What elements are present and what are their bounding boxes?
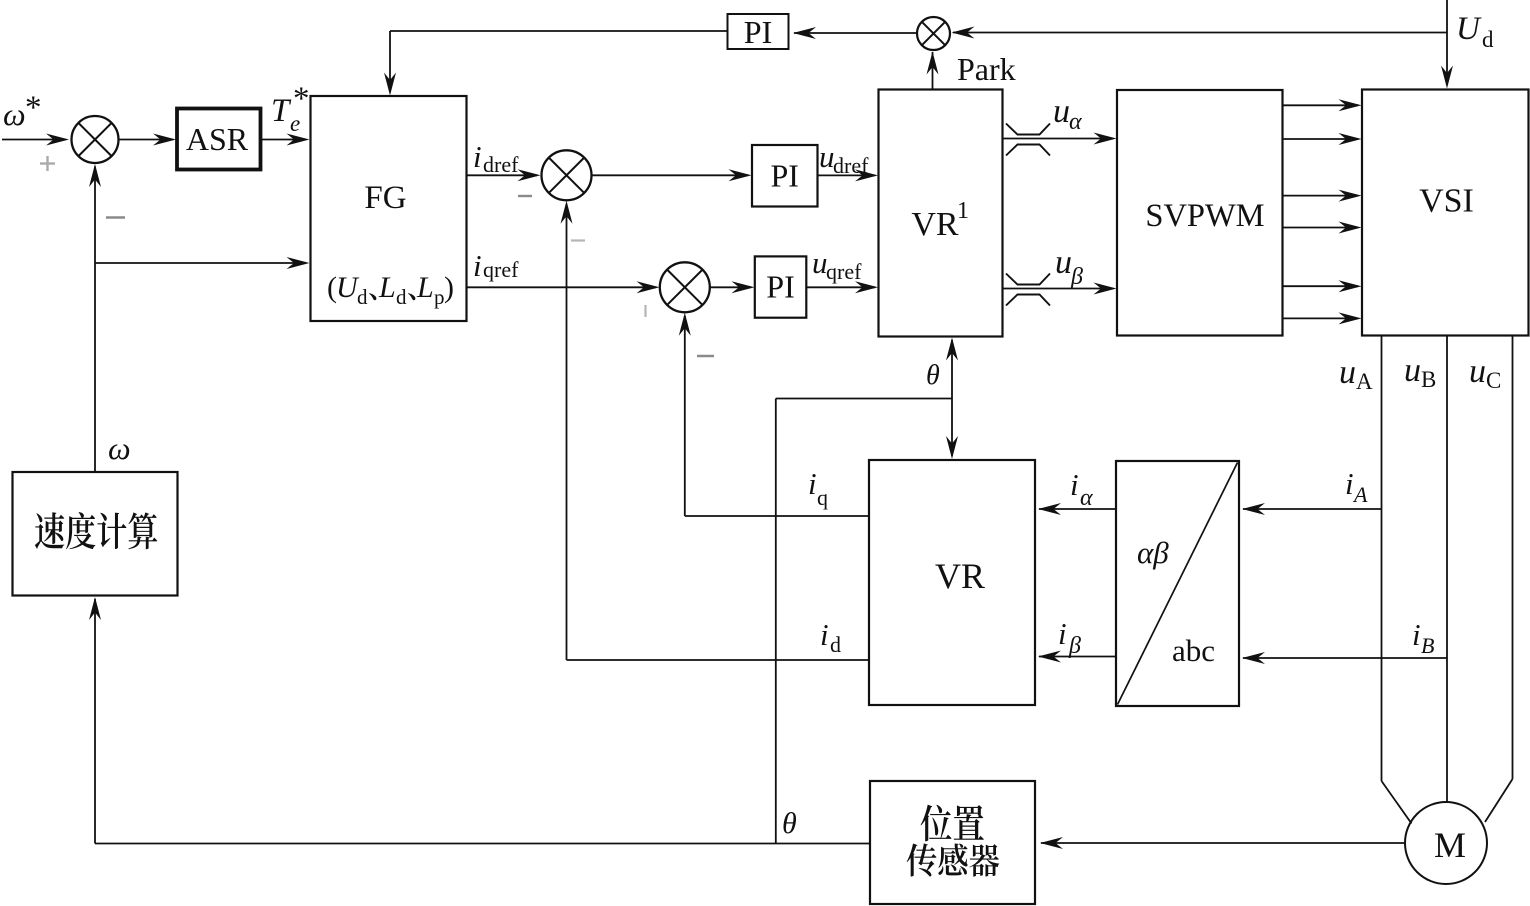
- svg-text:A: A: [1356, 369, 1373, 394]
- wire: S2 to PI1: [592, 174, 749, 176]
- wire: VR1 top to Park junction: [932, 52, 934, 90]
- svg-text:β: β: [1068, 633, 1081, 659]
- svg-text:i: i: [473, 139, 482, 174]
- svg-text:PI: PI: [766, 269, 794, 305]
- wire: motor to position sensor: [1041, 842, 1405, 844]
- block ASR: [177, 109, 261, 170]
- wire: uA phase line VSI to motor: [1381, 336, 1383, 782]
- label plus at S3: [644, 305, 646, 317]
- block VSI: [1362, 90, 1529, 336]
- svg-text:d: d: [830, 632, 841, 657]
- wire: S3 to PI2: [710, 286, 751, 288]
- block VR: [869, 460, 1035, 705]
- wire: theta branch to bottom feedback: [776, 398, 952, 400]
- wire: iA tap from uA line to abc block: [1243, 508, 1382, 510]
- svg-text:i: i: [1058, 616, 1067, 651]
- wire: theta between VR1 and VR (double arrow): [951, 340, 953, 456]
- svg-text:i: i: [1345, 466, 1354, 501]
- wire: speed calc omega output to S1: [94, 167, 96, 473]
- svg-text:ω: ω: [108, 430, 131, 466]
- svg-text:u: u: [1404, 352, 1421, 389]
- svg-text:α: α: [1080, 485, 1093, 511]
- svg-text:u: u: [1339, 354, 1356, 391]
- wire: omega* input to summing junction S1: [2, 139, 66, 141]
- wire: Ud line to Park junction: [953, 32, 1447, 34]
- svg-text:B: B: [1421, 633, 1434, 658]
- svg-text:i: i: [1412, 617, 1421, 652]
- svg-text:M: M: [1434, 825, 1466, 865]
- wire: PI2 to VR1: [806, 286, 875, 288]
- wire: VR1 u_beta to SVPWM with limiter: [1003, 288, 1114, 290]
- label minus2 at S2: [571, 239, 585, 241]
- svg-text:VR: VR: [911, 206, 959, 243]
- svg-text:ω: ω: [3, 96, 26, 132]
- wire: position sensor theta output to speed calc: [95, 843, 870, 845]
- svg-text:p: p: [434, 285, 445, 309]
- svg-text:qref: qref: [826, 259, 862, 284]
- wire: Ud vertical into VSI: [1446, 0, 1448, 85]
- label minus at S2: [518, 195, 532, 197]
- wire: iq from VR to S3: [685, 515, 869, 517]
- svg-text:β: β: [1070, 264, 1083, 290]
- svg-text:L: L: [416, 271, 434, 304]
- label minus at S1: [106, 216, 125, 219]
- label position-sensor line2: [907, 843, 1000, 876]
- wire: iB tap from uB line to abc block: [1243, 657, 1447, 659]
- block speed calculation: [13, 472, 178, 596]
- block VR1: [879, 90, 1003, 337]
- label + at S1: [40, 162, 55, 164]
- wire: S1 to ASR: [119, 139, 174, 141]
- wire: top PI output to FG top input: [390, 30, 728, 32]
- svg-text:SVPWM: SVPWM: [1145, 198, 1264, 234]
- svg-text:VSI: VSI: [1419, 183, 1474, 220]
- block SVPWM: [1117, 90, 1283, 336]
- svg-text:dref: dref: [483, 152, 519, 177]
- svg-text:*: *: [293, 81, 310, 117]
- wire: i_beta from abc block to VR: [1039, 656, 1116, 658]
- svg-text:VR: VR: [935, 556, 985, 596]
- block PI2: [755, 256, 807, 317]
- limiter symbol on u_beta: [1006, 274, 1050, 285]
- motor M: [1405, 802, 1487, 884]
- svg-text:d: d: [396, 285, 407, 309]
- svg-text:u: u: [1055, 244, 1072, 281]
- svg-text:d: d: [357, 285, 368, 309]
- svg-text:i: i: [473, 248, 482, 283]
- svg-text:PI: PI: [744, 14, 772, 50]
- svg-text:PI: PI: [770, 158, 798, 194]
- svg-text:C: C: [1486, 368, 1501, 393]
- wire: omega branch to FG lower input: [95, 262, 306, 264]
- svg-text:d: d: [1482, 27, 1494, 52]
- svg-text:FG: FG: [364, 180, 406, 216]
- block FG: [311, 96, 467, 321]
- svg-text:αβ: αβ: [1137, 535, 1169, 570]
- svg-text:1: 1: [957, 198, 969, 224]
- svg-text:T: T: [271, 93, 292, 129]
- wire: FG iqref output to S3: [467, 286, 657, 288]
- svg-text:B: B: [1421, 367, 1436, 392]
- svg-text:i: i: [808, 466, 817, 501]
- svg-text:u: u: [1469, 353, 1486, 390]
- svg-text:U: U: [1456, 11, 1482, 47]
- svg-text:*: *: [25, 90, 42, 126]
- wire: uB phase line VSI to motor: [1446, 336, 1448, 803]
- wire: VR1 u_alpha to SVPWM with limiter: [1003, 138, 1114, 140]
- svg-text:qref: qref: [483, 257, 519, 282]
- svg-text:u: u: [1053, 93, 1070, 130]
- svg-text:q: q: [817, 485, 828, 510]
- wire: id from VR to S2: [567, 659, 870, 661]
- wire: i_alpha from abc block to VR: [1039, 508, 1116, 510]
- summing junction S3: [660, 262, 710, 312]
- svg-text:i: i: [1070, 467, 1079, 502]
- svg-text:i: i: [820, 617, 829, 652]
- summing junction S1: [72, 116, 119, 163]
- svg-text:θ: θ: [782, 807, 797, 840]
- limiter symbol on u_alpha: [1006, 124, 1050, 135]
- wire: ASR to FG: [261, 139, 307, 141]
- block alphabeta-abc: [1116, 461, 1239, 706]
- svg-text:θ: θ: [926, 360, 940, 391]
- svg-text:ASR: ASR: [186, 121, 249, 157]
- summing junction S2: [542, 150, 592, 200]
- label speed-calculation text: [35, 512, 157, 549]
- summing junction Park (Sp): [917, 17, 950, 50]
- wire: PI1 to VR1: [818, 174, 876, 176]
- label position-sensor line1: [921, 805, 984, 842]
- wire: Park junction to top PI: [794, 32, 917, 34]
- wires: SVPWM to VSI six gate signals: [1283, 104, 1359, 106]
- block position sensor: [870, 781, 1035, 904]
- svg-text:Park: Park: [957, 51, 1016, 87]
- wire: uC phase line VSI to motor: [1512, 336, 1514, 780]
- svg-text:abc: abc: [1172, 633, 1215, 668]
- svg-text:α: α: [1069, 109, 1082, 135]
- block PI1: [752, 145, 818, 207]
- svg-text:): ): [444, 271, 454, 304]
- svg-text:L: L: [378, 271, 396, 304]
- svg-text:A: A: [1352, 482, 1368, 507]
- wire: FG idref output to S2: [467, 174, 538, 176]
- block PI top: [728, 14, 789, 49]
- label minus at S3: [697, 355, 714, 357]
